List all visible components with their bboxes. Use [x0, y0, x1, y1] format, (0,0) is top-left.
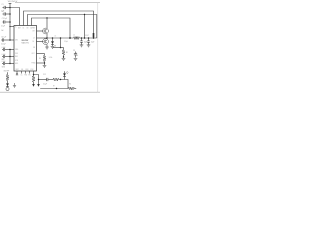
- wire FB tap: [60, 38, 62, 48]
- svg-text:REF: REF: [2, 59, 5, 61]
- junction on bus D: [46, 17, 47, 18]
- svg-text:BST: BST: [18, 27, 21, 29]
- svg-text:1nF: 1nF: [1, 30, 4, 32]
- svg-text:R2: R2: [75, 53, 77, 55]
- capacitor C1: [3, 7, 5, 9]
- svg-text:FB: FB: [54, 45, 56, 47]
- svg-text:V+: V+: [15, 26, 17, 28]
- svg-text:GND: GND: [15, 63, 18, 65]
- ground R1: [62, 59, 66, 61]
- resistor R3: [53, 78, 59, 81]
- wire VIN rail vertical: [9, 3, 11, 40]
- resistor R1: [62, 50, 65, 55]
- LED arrows: [66, 71, 68, 74]
- wire CC pin: [37, 62, 45, 64]
- wire output rail: [80, 37, 97, 39]
- svg-text:L1: L1: [73, 35, 75, 37]
- svg-text:R4: R4: [69, 83, 71, 85]
- svg-text:EN: EN: [29, 74, 31, 76]
- note text: [75, 53, 78, 58]
- junction dots on rail: [52, 37, 95, 39]
- transistor Q2: [43, 39, 49, 45]
- ground C10: [87, 45, 91, 47]
- wire branch: [34, 75, 39, 85]
- svg-text:ON/OFF: ON/OFF: [4, 71, 10, 73]
- svg-text:REF: REF: [15, 56, 18, 58]
- capacitor C4: [1, 39, 2, 41]
- wire Q1 drain: [46, 18, 48, 28]
- wire V+ pin: [10, 26, 14, 28]
- svg-text:OUT: OUT: [32, 53, 35, 55]
- capacitor C7: [2, 63, 3, 65]
- bottom rule: [0, 91, 100, 93]
- wire bus D: [32, 18, 71, 38]
- svg-text:VL: VL: [23, 27, 25, 29]
- wire bus C: [28, 15, 97, 39]
- svg-text:R7: R7: [53, 86, 55, 88]
- svg-text:C2: C2: [2, 11, 4, 13]
- wire to R1: [63, 48, 65, 50]
- svg-text:0.1µF: 0.1µF: [2, 61, 6, 63]
- ground R6: [43, 65, 47, 67]
- svg-text:LX: LX: [55, 36, 57, 38]
- U1 pin labels left: [15, 26, 19, 65]
- wire bus B: [24, 11, 94, 38]
- svg-text:C12: C12: [43, 74, 46, 76]
- capacitor C11 on bus B drop: [93, 33, 95, 37]
- wire Q1 gate: [37, 30, 44, 32]
- svg-text:R1: R1: [66, 52, 68, 54]
- wire switch rail: [47, 37, 74, 39]
- transistor Q1: [43, 28, 49, 34]
- capacitor C9: [81, 38, 83, 41]
- resistor R2: [32, 76, 35, 82]
- svg-text:FB2: FB2: [25, 74, 28, 76]
- svg-text:VD: VD: [27, 27, 29, 29]
- svg-text:GND: GND: [2, 66, 6, 68]
- wire bus C drop: [84, 15, 86, 39]
- svg-text:DL: DL: [33, 41, 35, 43]
- svg-text:24.9k: 24.9k: [49, 57, 53, 59]
- ground symbol lower left: [13, 83, 16, 88]
- node LX junction: [46, 37, 48, 39]
- wire bottom return: [40, 88, 68, 90]
- svg-text:BST: BST: [33, 28, 36, 30]
- wire top pin1 to VIN: [10, 8, 20, 26]
- frame right edge: [97, 3, 99, 93]
- svg-text:C1: C1: [2, 4, 4, 6]
- LED D2: [64, 71, 66, 73]
- capacitor C10: [88, 38, 90, 41]
- ground C9: [80, 45, 84, 47]
- svg-text:10µF: 10µF: [84, 42, 88, 44]
- wire Q1 source to LX node: [46, 34, 48, 39]
- wire chain left: [39, 79, 47, 81]
- ground arrow A: [32, 84, 35, 87]
- svg-text:FB: FB: [33, 47, 35, 49]
- U1 pin labels right: [32, 28, 36, 65]
- capacitor C5: [2, 49, 3, 51]
- svg-text:PGND: PGND: [32, 63, 36, 65]
- ground Q2: [45, 47, 49, 49]
- svg-text:POK: POK: [31, 69, 34, 71]
- capacitor C6: [2, 56, 3, 58]
- svg-text:R6: R6: [39, 58, 41, 60]
- terminal circle: [6, 87, 9, 90]
- svg-text:SKIP: SKIP: [16, 69, 19, 71]
- node chain junction: [38, 79, 39, 80]
- ground D1: [51, 46, 55, 48]
- wire OUT pin: [37, 53, 45, 55]
- resistor R6: [43, 56, 46, 62]
- VIN supply terminal: [9, 2, 12, 4]
- svg-text:FRQ: FRQ: [26, 69, 30, 71]
- wire Q2 gate: [37, 41, 44, 43]
- svg-text:LX: LX: [33, 38, 35, 40]
- svg-text:0.1µF: 0.1µF: [1, 26, 5, 28]
- svg-text:VDD: VDD: [15, 53, 18, 55]
- svg-text:C8: C8: [73, 50, 75, 52]
- wire chain right: [59, 80, 68, 89]
- svg-text:AV: AV: [31, 26, 33, 29]
- wire aux vertical: [9, 50, 11, 64]
- svg-text:FSEL: FSEL: [15, 49, 19, 51]
- svg-text:CC: CC: [21, 74, 23, 76]
- svg-text:100k: 100k: [75, 55, 78, 57]
- capacitor C2: [3, 13, 5, 15]
- svg-text:2.2µH: 2.2µH: [64, 41, 68, 43]
- node after R3: [60, 79, 61, 80]
- capacitor C8: [75, 52, 77, 54]
- svg-text:10µF: 10µF: [91, 42, 95, 44]
- svg-text:0.1µF: 0.1µF: [2, 47, 6, 49]
- svg-text:SYN: SYN: [15, 60, 18, 62]
- wire LX pin: [37, 37, 48, 39]
- junction dots on VIN rail: [9, 7, 11, 41]
- svg-text:C4 1µF: C4 1µF: [1, 36, 6, 38]
- wire FB horizontal: [53, 47, 64, 49]
- wire pin to R2 node: [33, 71, 35, 76]
- svg-text:MAX1992: MAX1992: [22, 42, 29, 45]
- svg-text:VOUT: VOUT: [85, 35, 89, 37]
- junction on bus C: [84, 14, 85, 15]
- op-amp U1 IC body: [14, 26, 37, 72]
- ground C8: [74, 59, 78, 61]
- resistor R4: [69, 87, 75, 90]
- svg-text:GND: GND: [16, 74, 19, 76]
- capacitor C12: [46, 78, 48, 81]
- wire bottom return right: [74, 88, 76, 90]
- wire R1 bottom: [63, 55, 65, 58]
- svg-text:0.1µF: 0.1µF: [2, 54, 6, 56]
- wire cap to R3: [48, 79, 53, 81]
- ground arrow B: [37, 84, 40, 87]
- svg-text:C3 1µF: C3 1µF: [2, 18, 7, 20]
- diode D3: [6, 83, 9, 86]
- node FB junction: [60, 47, 62, 49]
- capacitor C3: [3, 21, 4, 23]
- svg-text:0.22µF: 0.22µF: [1, 43, 6, 45]
- svg-text:ON: ON: [21, 69, 23, 71]
- svg-text:0.1µF: 0.1µF: [43, 83, 47, 85]
- inductor L1: [74, 37, 80, 40]
- wire Q2 source: [46, 44, 48, 47]
- U1 bottom pin stubs: [16, 71, 18, 74]
- svg-text:DH: DH: [33, 31, 35, 33]
- diode D1: [52, 38, 54, 41]
- U1 pin labels top: [18, 26, 32, 29]
- top rule: [15, 2, 100, 4]
- svg-text:VIN 2.5V/5.5V: VIN 2.5V/5.5V: [8, 1, 18, 3]
- U1 pin labels bottom: [16, 69, 34, 71]
- svg-text:ILIM: ILIM: [15, 40, 19, 42]
